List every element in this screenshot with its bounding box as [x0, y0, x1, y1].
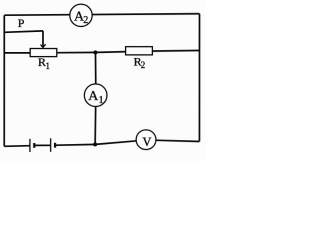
ammeter A1 circle	[84, 84, 107, 107]
wire between battery cells	[35, 144, 50, 146]
wire right vertical	[198, 14, 200, 142]
wire voltmeter to bottom-right corner	[156, 140, 200, 141]
wire battery to bottom junction	[56, 143, 96, 146]
wire slider vertical down to arrow	[42, 31, 44, 47]
wire top (left vertical to right, passes under A2)	[4, 14, 199, 16]
ammeter A2 circle	[70, 4, 92, 26]
node junction dot on bottom wire	[93, 142, 97, 146]
svg-text:1: 1	[99, 95, 104, 106]
svg-text:P: P	[18, 16, 25, 30]
svg-text:2: 2	[141, 60, 146, 70]
wire R1 to junction	[57, 51, 96, 53]
battery cell 1 short plate	[33, 143, 35, 148]
resistor R2 box	[126, 47, 153, 55]
voltmeter V circle	[136, 130, 156, 150]
wire left vertical	[3, 15, 5, 146]
wire middle row left (to R1)	[4, 52, 30, 54]
wire slider horizontal from left vertical	[4, 31, 43, 32]
battery cell 1 long plate	[29, 139, 31, 152]
wire vertical branch junction to A1	[94, 52, 96, 84]
battery cell 2 short plate	[54, 143, 56, 148]
wire R2 to right vertical	[152, 49, 199, 52]
svg-text:2: 2	[83, 15, 88, 26]
svg-text:V: V	[142, 135, 151, 149]
battery cell 2 long plate	[50, 138, 52, 151]
resistor R1 box	[30, 49, 57, 57]
wire A1 to bottom junction	[94, 107, 97, 145]
potentiometer arrow head	[40, 44, 45, 47]
svg-text:1: 1	[45, 61, 50, 71]
wire junction to R2	[95, 51, 125, 54]
node junction dot between R1 and R2	[93, 50, 97, 54]
wire bottom-left (corner to battery)	[4, 145, 30, 148]
wire bottom junction to voltmeter	[95, 141, 136, 145]
